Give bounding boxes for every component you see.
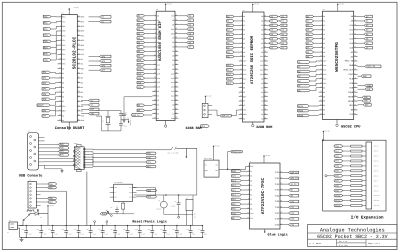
svg-text:A7: A7 xyxy=(243,46,245,49)
svg-text:31: 31 xyxy=(354,46,356,48)
svg-text:D4: D4 xyxy=(323,104,325,107)
svg-text:GND: GND xyxy=(171,117,174,120)
svg-text:D5: D5 xyxy=(81,105,83,108)
svg-text:VCC: VCC xyxy=(81,114,84,117)
svg-text:GND: GND xyxy=(243,113,246,116)
svg-text:0.1uF: 0.1uF xyxy=(92,234,96,236)
svg-text:R4: R4 xyxy=(118,201,120,203)
svg-text:0.1uF: 0.1uF xyxy=(166,234,170,236)
svg-text:26: 26 xyxy=(354,24,356,26)
svg-text:A5: A5 xyxy=(243,37,245,40)
svg-text:A6: A6 xyxy=(261,91,263,94)
svg-text:21: 21 xyxy=(154,103,156,105)
svg-text:20: 20 xyxy=(59,105,61,107)
svg-text:18: 18 xyxy=(320,91,322,93)
svg-text:18: 18 xyxy=(59,95,61,97)
svg-text:D3: D3 xyxy=(261,29,263,32)
svg-text:32: 32 xyxy=(175,46,177,48)
svg-text:D1: D1 xyxy=(40,217,42,219)
svg-text:42: 42 xyxy=(354,95,356,97)
svg-text:IP6: IP6 xyxy=(62,63,65,66)
svg-text:11: 11 xyxy=(320,60,322,62)
svg-text:8: 8 xyxy=(248,198,249,200)
svg-text:A0: A0 xyxy=(323,15,325,18)
svg-text:USB Console: USB Console xyxy=(19,174,43,179)
svg-text:15: 15 xyxy=(154,77,156,79)
svg-text:12: 12 xyxy=(154,63,156,65)
svg-text:19: 19 xyxy=(240,95,242,97)
svg-text:A12: A12 xyxy=(171,90,174,93)
svg-text:16: 16 xyxy=(280,188,282,190)
svg-text:D0: D0 xyxy=(81,81,83,84)
svg-text:A14: A14 xyxy=(243,77,246,80)
svg-text:AT28C256 SOIC EEPROM: AT28C256 SOIC EEPROM xyxy=(250,35,255,84)
svg-text:5: 5 xyxy=(155,32,156,34)
svg-text:42: 42 xyxy=(78,100,80,102)
svg-text:CEN: CEN xyxy=(62,105,65,108)
svg-text:A9: A9 xyxy=(243,55,245,58)
svg-text:10uF: 10uF xyxy=(204,234,208,236)
svg-text:12: 12 xyxy=(59,67,61,69)
svg-text:44: 44 xyxy=(78,109,80,111)
svg-text:A4: A4 xyxy=(323,33,325,36)
svg-text:D3: D3 xyxy=(172,55,174,58)
svg-text:Analogue Technologies: Analogue Technologies xyxy=(320,228,385,234)
svg-text:13: 13 xyxy=(154,68,156,70)
svg-text:A8: A8 xyxy=(261,82,263,85)
svg-text:7: 7 xyxy=(155,41,156,43)
svg-text:C10: C10 xyxy=(22,229,25,231)
svg-text:D4: D4 xyxy=(261,33,263,36)
svg-text:11: 11 xyxy=(240,60,242,62)
svg-text:A10: A10 xyxy=(323,60,326,63)
svg-text:X2: X2 xyxy=(81,63,83,66)
svg-text:RAM-CS: RAM-CS xyxy=(132,114,140,117)
svg-text:A15: A15 xyxy=(157,81,160,84)
svg-text:D1: D1 xyxy=(323,91,325,94)
svg-text:I2: I2 xyxy=(250,175,252,178)
svg-text:A9: A9 xyxy=(172,103,174,106)
svg-text:D0: D0 xyxy=(261,15,263,18)
svg-text:A3: A3 xyxy=(243,29,245,32)
svg-text:I/O4: I/O4 xyxy=(275,194,281,197)
svg-text:A9: A9 xyxy=(323,55,325,58)
svg-text:J2: J2 xyxy=(28,131,30,133)
svg-text:C15: C15 xyxy=(86,229,89,231)
svg-text:IP5: IP5 xyxy=(62,58,65,61)
svg-text:SEN: SEN xyxy=(114,187,117,189)
svg-text:41: 41 xyxy=(354,91,356,93)
svg-text:3: 3 xyxy=(241,24,242,26)
svg-text:D6: D6 xyxy=(62,95,64,98)
svg-text:A15: A15 xyxy=(323,82,326,85)
svg-text:33: 33 xyxy=(175,50,177,52)
svg-text:IP2: IP2 xyxy=(62,44,65,47)
svg-text:47: 47 xyxy=(264,113,266,115)
svg-text:12: 12 xyxy=(320,64,322,66)
svg-text:24: 24 xyxy=(78,15,80,17)
svg-text:A12: A12 xyxy=(323,69,326,72)
svg-text:36: 36 xyxy=(78,72,80,74)
svg-text:33: 33 xyxy=(354,55,356,57)
svg-text:IP3: IP3 xyxy=(62,48,65,51)
svg-text:A6: A6 xyxy=(243,42,245,45)
svg-text:0.1uF: 0.1uF xyxy=(80,234,84,236)
svg-text:0.1uF: 0.1uF xyxy=(153,234,157,236)
svg-text:A0: A0 xyxy=(261,118,263,121)
svg-text:J3: J3 xyxy=(29,179,31,181)
svg-text:37: 37 xyxy=(78,77,80,79)
svg-text:2: 2 xyxy=(248,170,249,172)
svg-text:D6: D6 xyxy=(323,113,325,116)
svg-text:I8: I8 xyxy=(250,203,252,206)
svg-text:11: 11 xyxy=(154,59,156,61)
svg-text:PHI2-CLK: PHI2-CLK xyxy=(232,150,242,153)
svg-text:D4: D4 xyxy=(172,50,174,53)
svg-text:OP2: OP2 xyxy=(81,25,84,28)
svg-text:D2: D2 xyxy=(323,95,325,98)
svg-text:19: 19 xyxy=(320,95,322,97)
svg-text:LT: LT xyxy=(114,192,116,194)
svg-text:32KB ROM: 32KB ROM xyxy=(256,125,272,130)
svg-text:39: 39 xyxy=(175,77,177,79)
svg-text:45: 45 xyxy=(354,109,356,111)
svg-text:27: 27 xyxy=(78,30,80,32)
svg-text:IO11: IO11 xyxy=(335,199,341,202)
svg-text:41: 41 xyxy=(175,86,177,88)
svg-text:18: 18 xyxy=(154,90,156,92)
svg-text:A13: A13 xyxy=(243,73,246,76)
svg-text:1: 1 xyxy=(241,15,242,17)
svg-text:VCC: VCC xyxy=(215,164,218,166)
svg-text:16: 16 xyxy=(320,82,322,84)
svg-text:46: 46 xyxy=(78,119,80,121)
svg-text:17: 17 xyxy=(59,91,61,93)
svg-text:D7: D7 xyxy=(261,46,263,49)
svg-text:C13: C13 xyxy=(62,229,65,231)
svg-text:I1: I1 xyxy=(250,170,252,173)
svg-text:31: 31 xyxy=(175,41,177,43)
svg-text:7: 7 xyxy=(321,42,322,44)
svg-text:29: 29 xyxy=(354,37,356,39)
svg-text:23: 23 xyxy=(320,113,322,115)
svg-text:A6: A6 xyxy=(323,42,325,45)
svg-text:CE1: CE1 xyxy=(171,28,174,31)
svg-text:1: 1 xyxy=(248,165,249,167)
svg-text:OE: OE xyxy=(172,23,174,26)
svg-text:A13: A13 xyxy=(157,72,160,75)
svg-text:27: 27 xyxy=(175,23,177,25)
svg-text:X1: X1 xyxy=(102,121,104,123)
svg-text:23: 23 xyxy=(154,112,156,114)
svg-text:A11: A11 xyxy=(323,64,326,67)
svg-text:23: 23 xyxy=(240,113,242,115)
svg-text:A8: A8 xyxy=(243,51,245,54)
svg-text:PHI2-OUT: PHI2-OUT xyxy=(343,69,353,72)
svg-text:A0: A0 xyxy=(62,114,64,117)
svg-text:24: 24 xyxy=(354,15,356,17)
svg-text:23: 23 xyxy=(59,119,61,121)
svg-text:GND: GND xyxy=(205,170,208,172)
svg-text:I/O5: I/O5 xyxy=(275,200,281,203)
svg-text:C18: C18 xyxy=(123,229,126,231)
svg-text:20: 20 xyxy=(154,99,156,101)
svg-text:36: 36 xyxy=(175,63,177,65)
svg-text:D6: D6 xyxy=(157,117,159,120)
svg-text:NMIB: NMIB xyxy=(348,95,354,98)
svg-text:45: 45 xyxy=(264,104,266,106)
svg-text:A2: A2 xyxy=(261,109,263,112)
svg-text:A14: A14 xyxy=(157,77,160,80)
svg-text:C16: C16 xyxy=(98,229,101,231)
svg-text:OSC1 4MHz: OSC1 4MHz xyxy=(204,158,212,160)
svg-text:0.1uF: 0.1uF xyxy=(67,234,71,236)
svg-text:43: 43 xyxy=(175,94,177,96)
svg-text:A0: A0 xyxy=(157,14,159,17)
svg-text:25: 25 xyxy=(354,20,356,22)
svg-text:6: 6 xyxy=(248,189,249,191)
svg-text:D6: D6 xyxy=(172,41,174,44)
svg-text:37: 37 xyxy=(354,73,356,75)
svg-text:48: 48 xyxy=(175,117,177,119)
svg-text:A11: A11 xyxy=(171,95,174,98)
svg-text:24: 24 xyxy=(154,117,156,119)
svg-text:27: 27 xyxy=(264,24,266,26)
svg-text:A13: A13 xyxy=(323,73,326,76)
svg-text:29: 29 xyxy=(264,33,266,35)
svg-text:10: 10 xyxy=(154,54,156,56)
svg-text:0.01uF: 0.01uF xyxy=(171,205,176,207)
svg-text:4: 4 xyxy=(155,28,156,30)
svg-text:CE: CE xyxy=(243,91,245,94)
svg-text:NC: NC xyxy=(243,104,245,107)
svg-text:PBR: PBR xyxy=(129,192,132,194)
svg-text:0.1uF: 0.1uF xyxy=(129,234,133,236)
svg-text:9: 9 xyxy=(248,203,249,205)
svg-text:A16: A16 xyxy=(157,86,160,89)
svg-text:44: 44 xyxy=(264,100,266,102)
svg-text:D1: D1 xyxy=(157,95,159,98)
svg-text:33: 33 xyxy=(264,51,266,53)
svg-text:4: 4 xyxy=(241,28,242,30)
svg-text:Q1: Q1 xyxy=(159,200,161,202)
svg-text:A14: A14 xyxy=(171,81,174,84)
svg-text:32: 32 xyxy=(264,46,266,48)
svg-text:Port B: Port B xyxy=(27,209,39,213)
svg-text:WE: WE xyxy=(172,19,174,22)
svg-text:6: 6 xyxy=(241,37,242,39)
svg-text:Console DUART: Console DUART xyxy=(55,126,85,131)
svg-text:A12: A12 xyxy=(260,64,263,67)
svg-text:16: 16 xyxy=(240,82,242,84)
svg-text:A1: A1 xyxy=(243,20,245,23)
svg-text:11: 11 xyxy=(247,212,249,214)
svg-text:A12: A12 xyxy=(157,68,160,71)
svg-text:22: 22 xyxy=(320,109,322,111)
svg-text:30: 30 xyxy=(78,44,80,46)
svg-text:16: 16 xyxy=(154,81,156,83)
svg-text:D1: D1 xyxy=(62,72,64,75)
svg-text:35: 35 xyxy=(354,64,356,66)
svg-text:1: 1 xyxy=(321,15,322,17)
svg-text:34: 34 xyxy=(175,54,177,56)
svg-text:3: 3 xyxy=(321,24,322,26)
svg-text:30: 30 xyxy=(354,42,356,44)
svg-text:D5: D5 xyxy=(172,46,174,49)
svg-text:C19: C19 xyxy=(135,229,138,231)
svg-text:I3: I3 xyxy=(250,179,252,182)
svg-text:17: 17 xyxy=(154,86,156,88)
svg-text:1: 1 xyxy=(155,14,156,16)
svg-text:A9: A9 xyxy=(261,77,263,80)
svg-text:14: 14 xyxy=(59,77,61,79)
svg-text:34: 34 xyxy=(78,62,80,64)
svg-text:11: 11 xyxy=(59,62,61,64)
svg-text:A10: A10 xyxy=(260,73,263,76)
svg-text:1: 1 xyxy=(60,15,61,17)
svg-text:D6: D6 xyxy=(261,42,263,45)
svg-text:65C02 Pocket SBC2 - 3.3V: 65C02 Pocket SBC2 - 3.3V xyxy=(317,234,388,240)
svg-text:6: 6 xyxy=(155,37,156,39)
svg-text:8: 8 xyxy=(321,46,322,48)
svg-text:10: 10 xyxy=(240,55,242,57)
svg-text:35: 35 xyxy=(78,67,80,69)
svg-text:A0: A0 xyxy=(243,15,245,18)
svg-text:32: 32 xyxy=(354,51,356,53)
svg-text:21: 21 xyxy=(280,217,282,219)
svg-text:18: 18 xyxy=(280,200,282,202)
svg-text:C23: C23 xyxy=(186,229,189,231)
svg-text:A10: A10 xyxy=(243,60,246,63)
svg-text:31: 31 xyxy=(78,48,80,50)
svg-text:43: 43 xyxy=(354,100,356,102)
svg-text:40: 40 xyxy=(175,81,177,83)
svg-text:I/O1: I/O1 xyxy=(275,177,281,180)
svg-text:IRQB: IRQB xyxy=(298,109,304,112)
svg-text:D5: D5 xyxy=(157,112,159,115)
svg-text:SC28L92-PLCC: SC28L92-PLCC xyxy=(72,36,78,69)
svg-text:24: 24 xyxy=(240,117,242,119)
svg-text:12: 12 xyxy=(247,217,249,219)
svg-text:3: 3 xyxy=(60,25,61,27)
svg-text:D4: D4 xyxy=(157,108,159,111)
svg-text:D2: D2 xyxy=(81,91,83,94)
svg-text:D5: D5 xyxy=(323,109,325,112)
svg-text:14: 14 xyxy=(280,177,282,179)
svg-text:D4: D4 xyxy=(62,86,64,89)
svg-text:RESB: RESB xyxy=(348,100,354,103)
svg-text:2: 2 xyxy=(155,19,156,21)
svg-text:9: 9 xyxy=(321,51,322,53)
svg-text:22: 22 xyxy=(59,114,61,116)
svg-text:32KB RAM: 32KB RAM xyxy=(185,126,201,131)
svg-text:I/O8: I/O8 xyxy=(275,218,281,221)
svg-text:D2: D2 xyxy=(261,24,263,27)
svg-text:C21: C21 xyxy=(160,229,163,231)
svg-text:A4: A4 xyxy=(261,100,263,103)
svg-text:GND: GND xyxy=(81,119,84,122)
svg-text:K. G. Maier: K. G. Maier xyxy=(310,242,322,245)
svg-text:31: 31 xyxy=(264,42,266,44)
svg-text:3: 3 xyxy=(248,174,249,176)
svg-text:39: 39 xyxy=(78,86,80,88)
svg-text:9: 9 xyxy=(241,51,242,53)
svg-text:OP1: OP1 xyxy=(81,20,84,23)
svg-text:RST: RST xyxy=(114,197,117,199)
svg-text:15: 15 xyxy=(240,77,242,79)
svg-text:5: 5 xyxy=(60,34,61,36)
svg-text:13: 13 xyxy=(320,68,322,70)
svg-text:38: 38 xyxy=(78,81,80,83)
svg-text:A11: A11 xyxy=(260,69,263,72)
svg-text:AS6C1008 SRAM DIP: AS6C1008 SRAM DIP xyxy=(158,20,163,60)
svg-text:2: 2 xyxy=(321,20,322,22)
svg-text:10: 10 xyxy=(59,58,61,60)
svg-text:8: 8 xyxy=(60,48,61,50)
svg-text:30: 30 xyxy=(175,37,177,39)
svg-text:D0: D0 xyxy=(62,67,64,70)
svg-text:ROM-CS: ROM-CS xyxy=(290,177,298,180)
svg-text:30: 30 xyxy=(264,37,266,39)
svg-text:OP3: OP3 xyxy=(81,30,84,33)
svg-text:ROM-CS: ROM-CS xyxy=(222,114,230,117)
svg-text:D2: D2 xyxy=(62,77,64,80)
svg-text:15: 15 xyxy=(320,77,322,79)
svg-text:I4: I4 xyxy=(250,184,252,187)
svg-text:33: 33 xyxy=(78,58,80,60)
svg-text:D3: D3 xyxy=(323,100,325,103)
svg-text:D5: D5 xyxy=(62,91,64,94)
svg-text:OP5: OP5 xyxy=(81,39,84,42)
svg-text:A13: A13 xyxy=(260,60,263,63)
svg-text:10: 10 xyxy=(247,207,249,209)
svg-text:45: 45 xyxy=(78,114,80,116)
svg-text:0.1uF: 0.1uF xyxy=(141,234,145,236)
svg-text:C5: C5 xyxy=(125,112,127,114)
svg-text:32: 32 xyxy=(78,53,80,55)
svg-text:I/O7: I/O7 xyxy=(275,212,281,215)
svg-text:W65C02S6TPG: W65C02S6TPG xyxy=(334,42,340,72)
svg-text:8: 8 xyxy=(241,46,242,48)
svg-text:I5: I5 xyxy=(250,189,252,192)
svg-text:A16: A16 xyxy=(171,72,174,75)
svg-text:SW1: SW1 xyxy=(26,211,29,213)
svg-text:22: 22 xyxy=(154,108,156,110)
svg-text:D3: D3 xyxy=(81,95,83,98)
svg-text:A11: A11 xyxy=(243,64,246,67)
svg-text:D1: D1 xyxy=(172,63,174,66)
svg-text:17: 17 xyxy=(320,86,322,88)
svg-text:A2: A2 xyxy=(323,24,325,27)
svg-text:8-24-2021: 8-24-2021 xyxy=(339,244,348,247)
svg-text:25: 25 xyxy=(175,14,177,16)
svg-text:5: 5 xyxy=(248,184,249,186)
svg-text:I10: I10 xyxy=(250,212,253,215)
svg-text:65C02 CPU: 65C02 CPU xyxy=(341,124,360,129)
svg-text:0.1uF: 0.1uF xyxy=(178,234,182,236)
svg-text:D7: D7 xyxy=(172,37,174,40)
svg-text:OUT: OUT xyxy=(215,170,218,172)
svg-text:13: 13 xyxy=(280,171,282,173)
svg-text:A5: A5 xyxy=(323,37,325,40)
svg-text:D5: D5 xyxy=(261,37,263,40)
svg-text:9: 9 xyxy=(60,53,61,55)
svg-text:0.1uF: 0.1uF xyxy=(116,234,120,236)
svg-text:28: 28 xyxy=(175,28,177,30)
svg-text:26: 26 xyxy=(78,25,80,27)
svg-text:6: 6 xyxy=(321,37,322,39)
svg-text:34: 34 xyxy=(354,60,356,62)
